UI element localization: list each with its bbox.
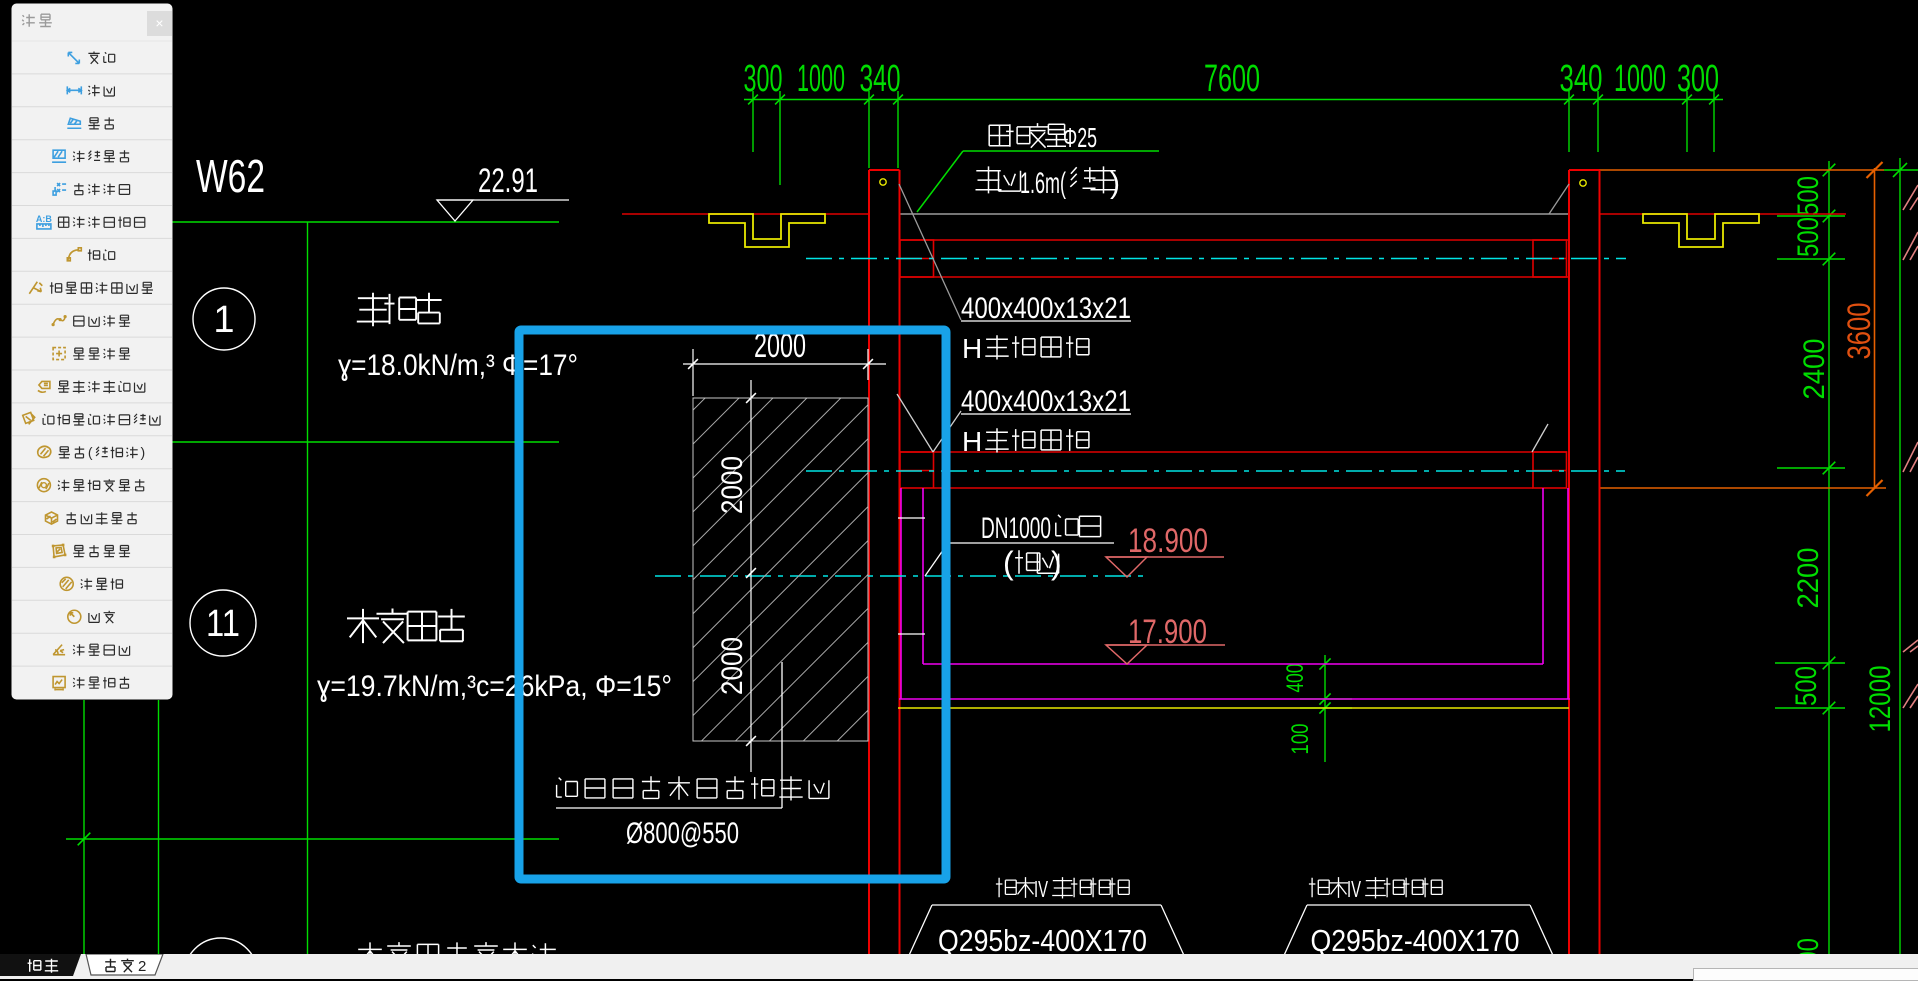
svg-text:12000: 12000 <box>1864 666 1897 733</box>
svg-text:400x400x13x21: 400x400x13x21 <box>961 385 1131 418</box>
svg-text:×: × <box>155 15 163 31</box>
svg-text:2000: 2000 <box>716 456 749 514</box>
svg-text:2200: 2200 <box>1792 548 1825 609</box>
svg-text:18.900: 18.900 <box>1128 522 1208 560</box>
svg-text:100: 100 <box>1287 724 1314 755</box>
svg-text:500: 500 <box>1790 666 1823 706</box>
svg-text:300: 300 <box>1677 58 1719 100</box>
svg-text:1: 1 <box>213 299 234 341</box>
svg-text:): ) <box>141 444 146 460</box>
svg-text:1.6m(: 1.6m( <box>1020 167 1066 200</box>
svg-text:(: ( <box>88 444 93 460</box>
svg-text:340: 340 <box>1560 58 1603 100</box>
svg-text:11: 11 <box>206 603 240 645</box>
svg-text:Q295bz-400X170: Q295bz-400X170 <box>1310 923 1519 958</box>
svg-text:ɣ=19.7kN/m,³c=26kPa, Φ=15°: ɣ=19.7kN/m,³c=26kPa, Φ=15° <box>317 670 672 703</box>
svg-text:7600: 7600 <box>1204 58 1260 100</box>
svg-text:22.91: 22.91 <box>478 162 538 200</box>
svg-text:2400: 2400 <box>1798 339 1831 400</box>
svg-text:340: 340 <box>860 58 901 100</box>
svg-text:IV: IV <box>1034 876 1048 902</box>
svg-text:Q295bz-400X170: Q295bz-400X170 <box>938 923 1147 958</box>
svg-text:IV: IV <box>1347 876 1361 902</box>
svg-text:3600: 3600 <box>1841 303 1877 360</box>
svg-text:): ) <box>1051 545 1062 581</box>
svg-text:(: ( <box>1003 545 1014 581</box>
svg-text:H: H <box>962 426 982 457</box>
svg-text:): ) <box>1110 167 1120 200</box>
svg-text:Ø800@550: Ø800@550 <box>626 817 739 850</box>
svg-text:300: 300 <box>744 58 783 100</box>
svg-text:2000: 2000 <box>716 637 749 695</box>
svg-text:A:B: A:B <box>36 214 52 224</box>
svg-text:400x400x13x21: 400x400x13x21 <box>961 292 1131 325</box>
svg-text:1000: 1000 <box>797 58 845 100</box>
svg-text:1000: 1000 <box>1614 58 1666 100</box>
svg-text:H: H <box>962 333 982 364</box>
svg-text:400: 400 <box>1282 664 1309 693</box>
svg-text:Φ25: Φ25 <box>1063 122 1097 153</box>
svg-text:DN1000: DN1000 <box>981 512 1051 545</box>
svg-text:ɣ=18.0kN/m,³ Φ=17°: ɣ=18.0kN/m,³ Φ=17° <box>338 349 578 382</box>
svg-text:500: 500 <box>1792 217 1825 257</box>
svg-text:W62: W62 <box>196 150 265 202</box>
svg-text:500: 500 <box>1792 176 1825 216</box>
svg-text:2: 2 <box>138 958 146 975</box>
